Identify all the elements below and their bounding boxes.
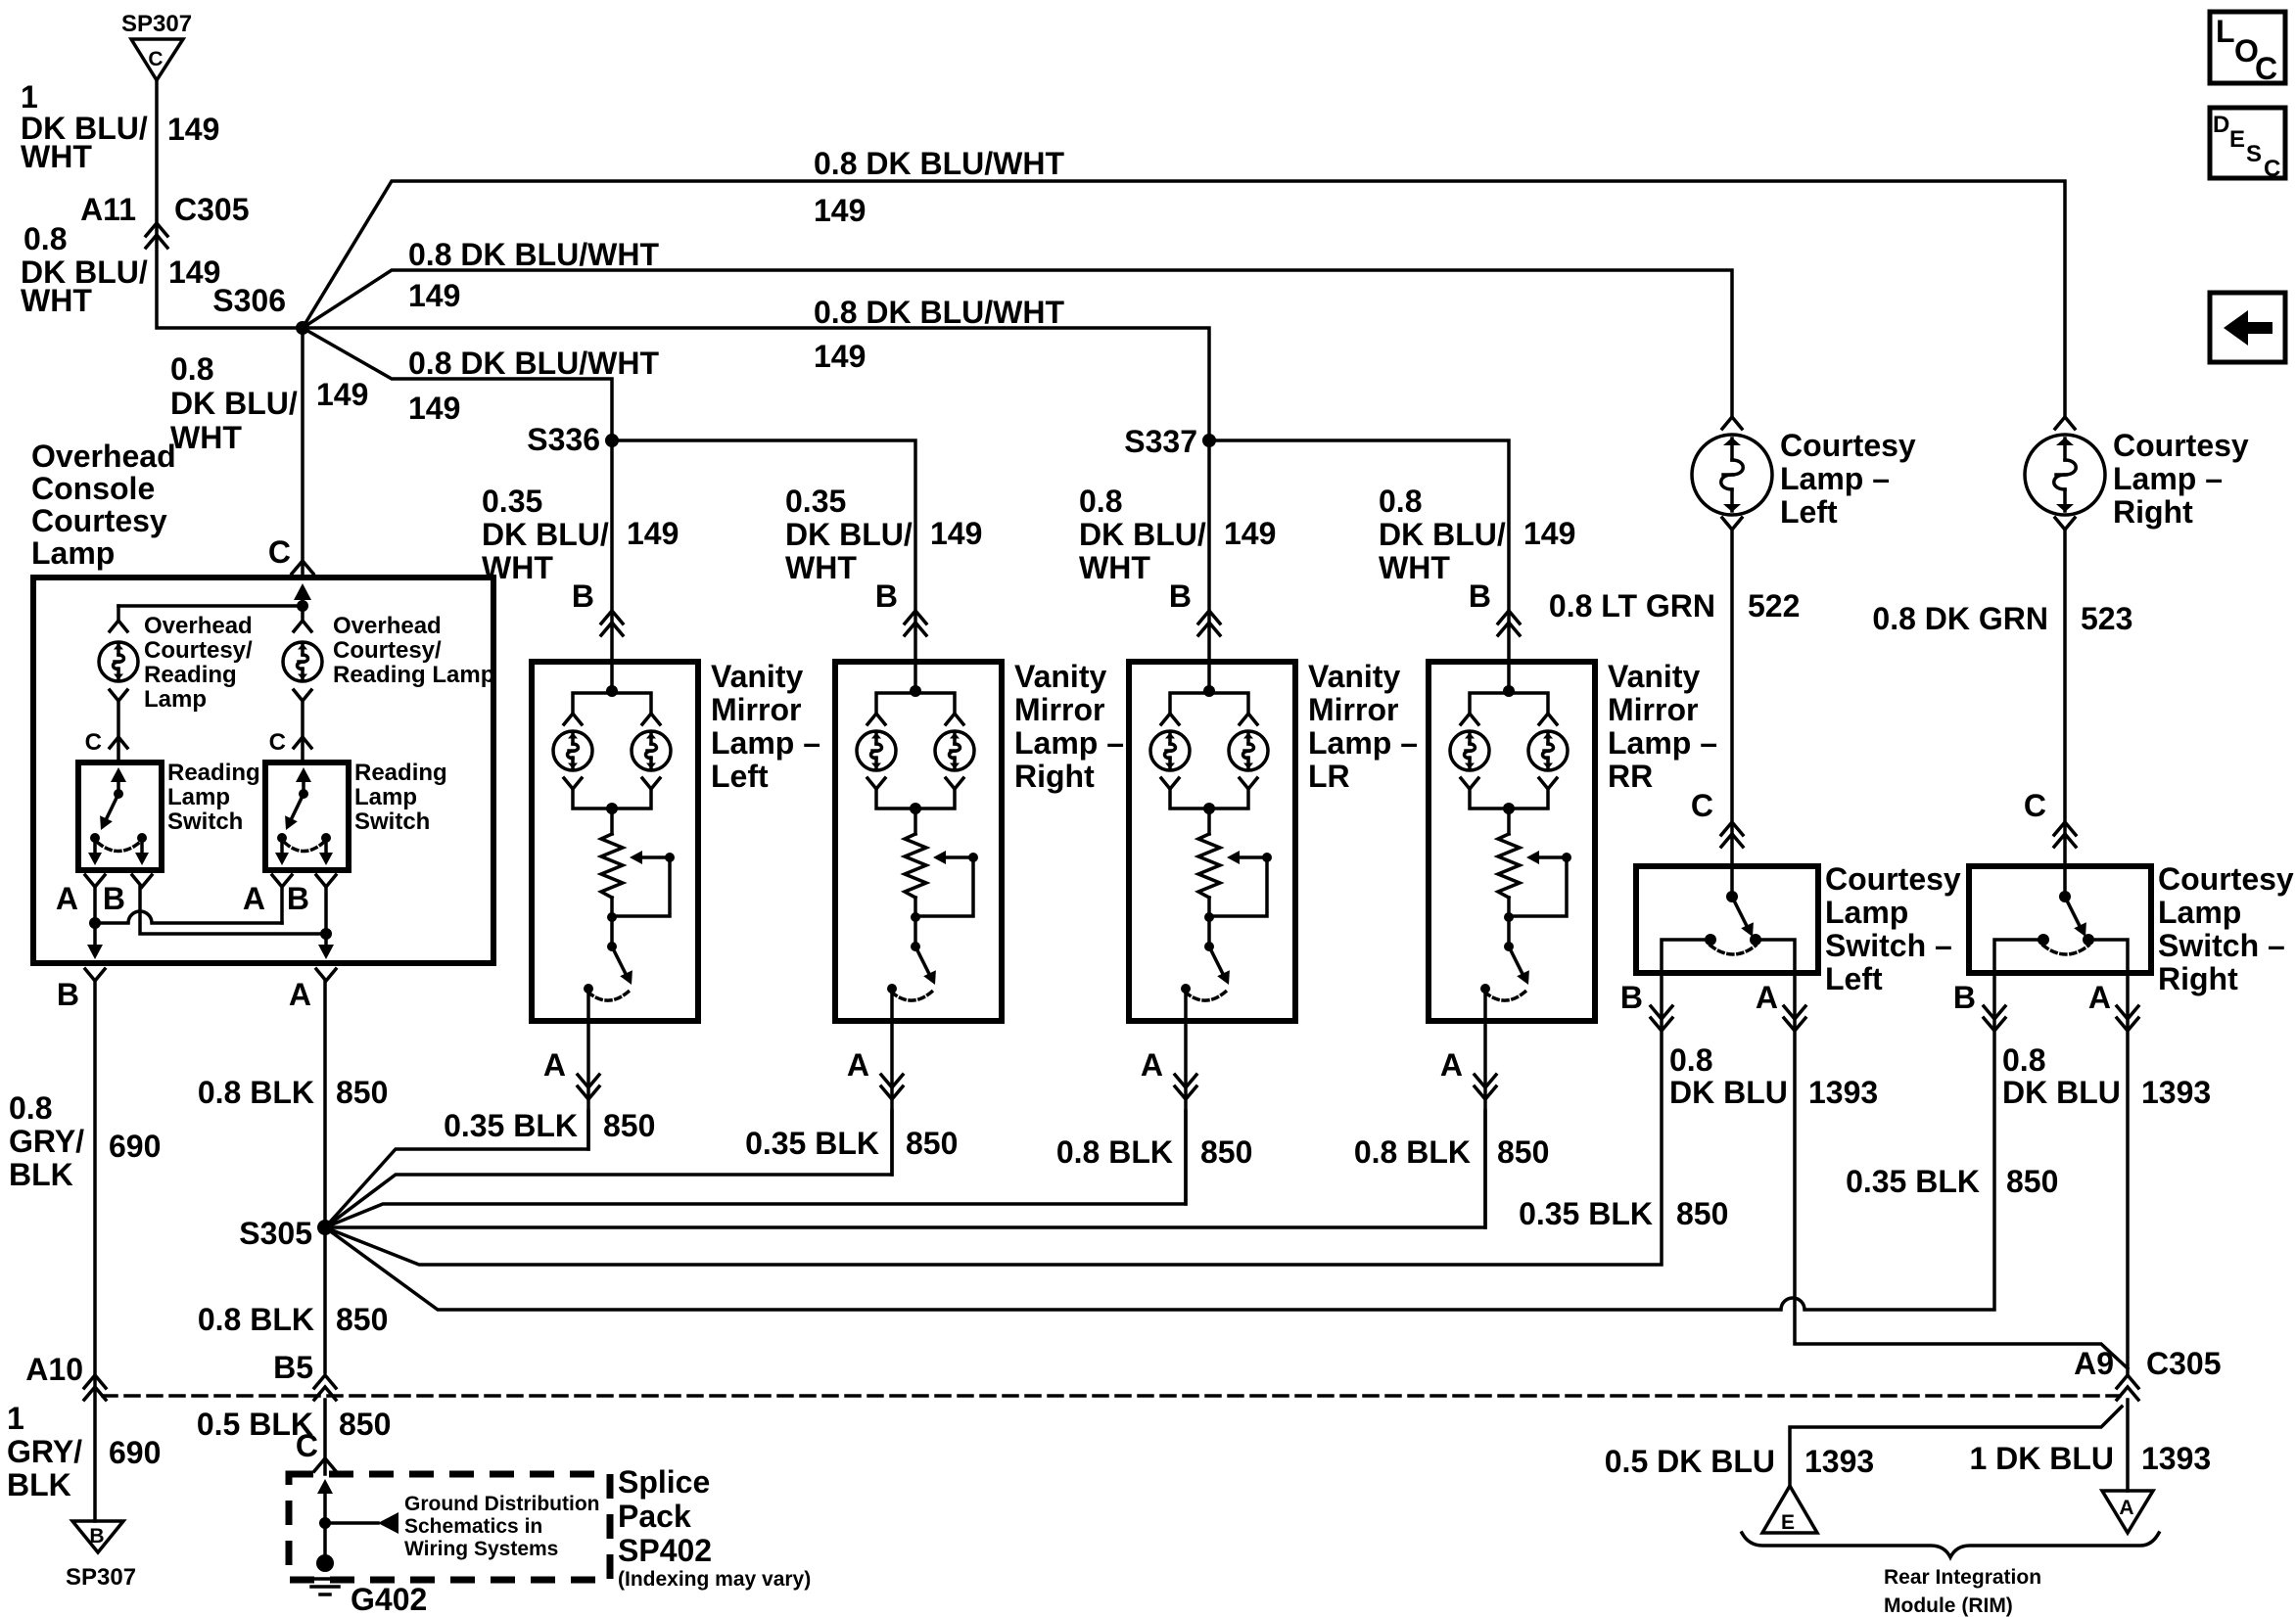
- wire S305 to vanity RR pin A (0.8 BLK 850): [325, 1111, 1485, 1227]
- label 0.8 DK BLU/WHT 149 (vanity RR): [1379, 484, 1575, 585]
- label ground distribution note: [404, 1493, 599, 1560]
- svg-text:A: A: [1756, 980, 1778, 1015]
- label 0.8 GRY/BLK 690: [9, 1090, 161, 1192]
- wire courtesy switch left A to C305 A9: [1795, 973, 2128, 1368]
- courtesy lamp left: [1692, 417, 1772, 530]
- svg-text:A9: A9: [2074, 1346, 2114, 1381]
- svg-text:A11: A11: [80, 192, 136, 227]
- label vanity mirror lamp LR: [1308, 659, 1418, 794]
- wire S305 down to splice pack (0.8 BLK 850): [323, 1227, 327, 1372]
- wire console A to S305 (0.8 BLK 850): [323, 981, 327, 1227]
- svg-text:Overhead: Overhead: [144, 613, 253, 639]
- svg-text:Right: Right: [2158, 961, 2238, 996]
- dashed separator line: [103, 1394, 2120, 1398]
- svg-text:C: C: [268, 534, 291, 570]
- svg-text:0.8 BLK: 0.8 BLK: [198, 1302, 314, 1337]
- label reading lamp switch left: [167, 760, 260, 835]
- wire vanity RR lamps join: [1461, 778, 1557, 834]
- vanity mirror lamp right box: [835, 662, 1002, 1021]
- svg-text:DK BLU/: DK BLU/: [1379, 517, 1506, 552]
- svg-text:Lamp: Lamp: [354, 784, 417, 810]
- label courtesy lamp switch right: [2158, 861, 2294, 996]
- svg-text:WHT: WHT: [21, 283, 92, 318]
- svg-text:0.8 DK BLU/WHT: 0.8 DK BLU/WHT: [408, 237, 659, 272]
- svg-text:Reading: Reading: [167, 760, 260, 786]
- label courtesy lamp switch left: [1825, 861, 1961, 996]
- svg-text:Wiring Systems: Wiring Systems: [404, 1538, 558, 1560]
- label overhead lamp left: [144, 613, 253, 713]
- svg-text:A10: A10: [25, 1352, 83, 1387]
- svg-text:Reading Lamp: Reading Lamp: [333, 662, 494, 688]
- wire S305 to courtesy switch left pin B (0.35 BLK 850): [325, 973, 1662, 1265]
- svg-text:850: 850: [1676, 1196, 1728, 1231]
- pin B courtesy switch right: [1953, 980, 2005, 1031]
- svg-text:S306: S306: [212, 283, 286, 318]
- svg-text:0.35 BLK: 0.35 BLK: [444, 1108, 578, 1143]
- svg-text:E: E: [2229, 126, 2245, 153]
- svg-text:1: 1: [21, 79, 38, 115]
- DESC legend box: [2210, 108, 2285, 182]
- label 0.8 BLK 850 (vanity RR): [1354, 1134, 1550, 1170]
- vanity LR bulb 2: [1229, 731, 1268, 770]
- vanity mirror lamp left box: [532, 662, 698, 1021]
- svg-text:B: B: [1953, 980, 1976, 1015]
- svg-text:A: A: [289, 977, 311, 1012]
- wire console B to SP307 (0.8/1 GRY/BLK 690): [93, 981, 97, 1521]
- label vanity mirror lamp RR: [1608, 659, 1717, 794]
- wire vanity left lamps join: [564, 778, 660, 834]
- svg-text:Lamp: Lamp: [31, 535, 115, 571]
- svg-text:SP307: SP307: [66, 1564, 136, 1591]
- pin A courtesy switch right: [2088, 980, 2138, 1031]
- svg-text:Switch: Switch: [167, 808, 243, 835]
- svg-text:SP307: SP307: [121, 11, 192, 37]
- label 0.8 DK BLU 1393 (switch left): [1669, 1042, 1878, 1110]
- svg-text:0.8 BLK: 0.8 BLK: [198, 1075, 314, 1110]
- svg-text:B: B: [89, 1525, 104, 1548]
- svg-text:Console: Console: [31, 471, 155, 506]
- svg-text:Ground Distribution: Ground Distribution: [404, 1493, 599, 1515]
- svg-text:Mirror: Mirror: [1308, 692, 1398, 727]
- svg-text:C305: C305: [174, 192, 250, 227]
- wire vanity LR lamps join: [1161, 778, 1257, 834]
- wire courtesy switch right A to C305 A9: [2126, 973, 2130, 1373]
- svg-text:149: 149: [627, 516, 679, 551]
- resistor vanity right (rheostat): [905, 834, 926, 898]
- svg-text:522: 522: [1748, 588, 1800, 624]
- label reading lamp switch right: [354, 760, 447, 835]
- svg-text:Reading: Reading: [144, 662, 237, 688]
- pin A courtesy switch left: [1756, 980, 1805, 1031]
- node C (console connector): [268, 534, 313, 574]
- svg-text:LR: LR: [1308, 759, 1350, 794]
- label 0.8 LT GRN 522: [1549, 588, 1800, 624]
- svg-text:Mirror: Mirror: [711, 692, 801, 727]
- label 0.8 DK BLU/WHT 149 (console feed): [170, 351, 368, 455]
- svg-text:C: C: [148, 48, 163, 70]
- pin A console: [289, 969, 336, 1012]
- wiper vanity RR: [1504, 851, 1571, 922]
- svg-text:149: 149: [408, 391, 460, 426]
- connector SP307 bottom (triangle B): [66, 1521, 136, 1591]
- wire S306 down to overhead console (0.8 DK BLU/WHT 149): [301, 328, 305, 577]
- svg-text:Lamp –: Lamp –: [1014, 725, 1124, 761]
- label courtesy lamp left: [1780, 428, 1916, 530]
- wire console internal B-B link: [140, 887, 332, 940]
- vanity right bulb 2: [935, 731, 974, 770]
- svg-text:850: 850: [2006, 1164, 2058, 1199]
- vanity RR bulb 2: [1528, 731, 1568, 770]
- svg-text:Schematics in: Schematics in: [404, 1515, 542, 1538]
- svg-text:G402: G402: [351, 1582, 427, 1617]
- connector C305 pin A11: [80, 192, 249, 248]
- wire console internal A-A link: [89, 887, 282, 929]
- svg-text:D: D: [2213, 112, 2229, 138]
- svg-text:S337: S337: [1124, 424, 1197, 459]
- svg-text:Vanity: Vanity: [1308, 659, 1400, 694]
- wire courtesy lamp left to switch (0.8 LT GRN 522): [1730, 530, 1734, 866]
- reading lamp switch left internals: [88, 767, 149, 865]
- svg-text:Courtesy/: Courtesy/: [333, 637, 442, 664]
- svg-text:DK BLU/: DK BLU/: [170, 386, 298, 421]
- svg-text:0.8 LT GRN: 0.8 LT GRN: [1549, 588, 1715, 624]
- vanity left bulb 2: [632, 731, 671, 770]
- svg-text:C: C: [2264, 156, 2280, 182]
- wire S306 to courtesy lamp right (0.8 DK BLU/WHT 149): [303, 181, 2065, 417]
- LOC legend box: [2210, 12, 2285, 86]
- svg-text:149: 149: [1224, 516, 1276, 551]
- svg-text:(Indexing may vary): (Indexing may vary): [618, 1568, 811, 1591]
- label 0.35 DK BLU/WHT 149 (vanity right): [785, 484, 982, 585]
- svg-text:850: 850: [603, 1108, 655, 1143]
- svg-text:Lamp –: Lamp –: [1780, 461, 1890, 496]
- wire console exit B: [87, 923, 103, 959]
- connector SP307 top (triangle C): [121, 11, 192, 80]
- label vanity mirror lamp left: [711, 659, 820, 794]
- svg-text:BLK: BLK: [9, 1157, 73, 1192]
- svg-text:1393: 1393: [2141, 1441, 2211, 1476]
- wire overhead lamp left to switch pin C: [85, 690, 127, 762]
- back arrow box: [2210, 293, 2285, 362]
- label 0.35 BLK 850 (vanity left): [444, 1108, 655, 1143]
- svg-text:0.8: 0.8: [1669, 1042, 1712, 1078]
- svg-text:Lamp: Lamp: [1825, 895, 1908, 930]
- wire inside splice pack: [317, 1479, 333, 1563]
- svg-text:WHT: WHT: [170, 420, 242, 455]
- wire S336 to vanity mirror lamp right: [612, 440, 915, 662]
- svg-text:DK BLU/: DK BLU/: [482, 517, 609, 552]
- svg-text:1393: 1393: [1808, 1075, 1878, 1110]
- svg-text:0.8 DK BLU/WHT: 0.8 DK BLU/WHT: [814, 146, 1064, 181]
- svg-text:B5: B5: [273, 1350, 313, 1385]
- svg-text:Left: Left: [711, 759, 769, 794]
- svg-text:Left: Left: [1825, 961, 1883, 996]
- svg-text:WHT: WHT: [1379, 550, 1450, 585]
- svg-text:WHT: WHT: [785, 550, 857, 585]
- svg-text:Courtesy: Courtesy: [31, 503, 167, 538]
- vanity mirror lamp LR box: [1129, 662, 1295, 1021]
- wire vanity right pin A to S305: [847, 989, 903, 1175]
- label overhead lamp right: [333, 613, 494, 688]
- wire vanity RR internal top: [1461, 662, 1557, 724]
- svg-text:149: 149: [167, 112, 219, 147]
- svg-text:0.8 DK GRN: 0.8 DK GRN: [1872, 601, 2048, 636]
- svg-text:C: C: [2024, 788, 2046, 823]
- svg-text:A: A: [243, 881, 265, 916]
- label 0.35 BLK 850 (vanity right): [745, 1126, 958, 1161]
- wiper vanity left: [607, 851, 675, 922]
- label 0.8 DK BLU/WHT 149 (top branch): [814, 146, 1064, 228]
- pin B courtesy switch left: [1620, 980, 1672, 1031]
- svg-text:DK BLU/: DK BLU/: [785, 517, 913, 552]
- label splice pack SP402: [618, 1464, 811, 1591]
- label 1 DK BLU/WHT 149: [21, 79, 219, 174]
- label 1 GRY/BLK 690: [7, 1401, 161, 1502]
- svg-text:SP402: SP402: [618, 1533, 712, 1568]
- svg-text:0.35 BLK: 0.35 BLK: [1519, 1196, 1653, 1231]
- svg-text:0.8 DK BLU/WHT: 0.8 DK BLU/WHT: [408, 346, 659, 381]
- svg-text:Right: Right: [1014, 759, 1095, 794]
- resistor vanity left (rheostat): [601, 834, 623, 898]
- svg-text:Pack: Pack: [618, 1499, 691, 1534]
- overhead courtesy/reading lamp left: [99, 642, 138, 681]
- svg-text:GRY/: GRY/: [7, 1434, 82, 1469]
- label 0.8 BLK 850 (below S305): [198, 1302, 389, 1337]
- svg-text:WHT: WHT: [1079, 550, 1150, 585]
- label 0.8 DK GRN 523: [1872, 601, 2132, 636]
- svg-text:523: 523: [2081, 601, 2132, 636]
- node console splice: [118, 600, 308, 612]
- svg-text:Courtesy: Courtesy: [2113, 428, 2249, 463]
- wire vanity LR pin A to S305: [1141, 989, 1196, 1204]
- svg-text:690: 690: [109, 1435, 161, 1470]
- reading lamp switch left box: [78, 762, 162, 870]
- label 0.8 DK BLU/WHT 149 (vanity LR): [1079, 484, 1276, 585]
- svg-text:B: B: [1169, 578, 1192, 614]
- switch vanity LR: [1181, 898, 1230, 1000]
- svg-text:850: 850: [336, 1302, 388, 1337]
- label Rear Integration Module (RIM): [1884, 1566, 2041, 1617]
- splice S337: [1124, 424, 1216, 459]
- courtesy lamp switch right internals: [1994, 866, 2128, 973]
- svg-text:149: 149: [930, 516, 982, 551]
- pins A B of reading lamp switch left: [56, 875, 152, 916]
- svg-text:Rear Integration: Rear Integration: [1884, 1566, 2041, 1589]
- svg-text:Module (RIM): Module (RIM): [1884, 1594, 2013, 1617]
- svg-text:0.35 BLK: 0.35 BLK: [1846, 1164, 1980, 1199]
- wire B5 to splice pack (0.5 BLK 850): [323, 1400, 327, 1474]
- label 0.8 DK BLU/WHT 149 (third branch): [814, 295, 1064, 374]
- label 0.8 DK BLU/WHT 149 (A11 to S306): [21, 221, 220, 318]
- svg-text:0.5 DK BLU: 0.5 DK BLU: [1605, 1444, 1775, 1479]
- label vanity mirror lamp right: [1014, 659, 1124, 794]
- svg-text:C: C: [296, 1428, 318, 1463]
- svg-text:Vanity: Vanity: [711, 659, 803, 694]
- label Overhead Console Courtesy Lamp: [31, 439, 176, 571]
- wire S337 to vanity mirror lamp RR: [1209, 440, 1509, 662]
- wire S306 to courtesy lamp left (0.8 DK BLU/WHT 149): [303, 270, 1732, 417]
- courtesy lamp switch left internals: [1662, 866, 1795, 973]
- svg-text:Mirror: Mirror: [1014, 692, 1104, 727]
- wire vanity RR pin A to S305: [1440, 989, 1496, 1227]
- wire S305 to vanity left pin A (0.35 BLK 850): [325, 1111, 588, 1227]
- svg-text:0.8 DK BLU/WHT: 0.8 DK BLU/WHT: [814, 295, 1064, 330]
- label courtesy lamp right: [2113, 428, 2249, 530]
- svg-text:Lamp –: Lamp –: [1608, 725, 1717, 761]
- overhead console courtesy lamp box: [33, 577, 493, 963]
- wire S306 to splice S336 (0.8 DK BLU/WHT 149): [303, 328, 612, 440]
- courtesy lamp right: [2025, 417, 2105, 530]
- wire overhead lamp right to switch pin C: [269, 690, 311, 762]
- svg-text:Switch: Switch: [354, 808, 430, 835]
- vanity RR bulb 1: [1450, 731, 1489, 770]
- wiper vanity right: [911, 851, 978, 922]
- svg-text:1393: 1393: [2141, 1075, 2211, 1110]
- wire S306 to splice S337 (0.8 DK BLU/WHT 149): [303, 328, 1209, 440]
- svg-text:A: A: [847, 1047, 869, 1083]
- svg-text:L: L: [2216, 14, 2235, 49]
- svg-text:Switch –: Switch –: [2158, 928, 2285, 963]
- svg-text:A: A: [56, 881, 78, 916]
- label 0.8 DK BLU 1393 (switch right): [2002, 1042, 2211, 1110]
- svg-text:E: E: [1781, 1511, 1795, 1534]
- svg-text:B: B: [1469, 578, 1491, 614]
- svg-text:Lamp –: Lamp –: [1308, 725, 1418, 761]
- wire C305 A9 branch to RIM pin E (0.5 DK BLU 1393): [1790, 1407, 2122, 1486]
- label 0.35 BLK 850 (courtesy switch left B): [1519, 1196, 1728, 1231]
- svg-text:DK BLU: DK BLU: [1669, 1075, 1788, 1110]
- wire courtesy lamp right to switch (0.8 DK GRN 523): [2063, 530, 2067, 866]
- svg-text:B: B: [287, 881, 309, 916]
- svg-text:Courtesy: Courtesy: [1780, 428, 1916, 463]
- vanity left bulb 1: [553, 731, 592, 770]
- svg-text:149: 149: [316, 377, 368, 412]
- connector C305 pin B5: [273, 1350, 336, 1400]
- label 1 DK BLU 1393: [1969, 1441, 2211, 1476]
- pins A B of reading lamp switch right: [243, 875, 336, 916]
- overhead courtesy/reading lamp right: [283, 642, 322, 681]
- svg-text:0.35: 0.35: [785, 484, 846, 519]
- vanity LR bulb 1: [1150, 731, 1190, 770]
- RIM pin A triangle: [2102, 1491, 2153, 1533]
- wire vanity right internal top: [867, 662, 963, 724]
- RIM brace: [1742, 1533, 2159, 1557]
- svg-text:C: C: [2255, 51, 2277, 86]
- svg-text:0.8: 0.8: [1379, 484, 1422, 519]
- svg-text:0.8 BLK: 0.8 BLK: [1056, 1134, 1173, 1170]
- svg-text:Vanity: Vanity: [1608, 659, 1700, 694]
- svg-text:B: B: [103, 881, 125, 916]
- courtesy lamp switch right box: [1969, 866, 2151, 973]
- svg-text:C: C: [85, 729, 102, 756]
- resistor vanity LR (rheostat): [1198, 834, 1220, 898]
- pin C courtesy lamp switch left: [1691, 788, 1743, 847]
- svg-text:0.8: 0.8: [1079, 484, 1122, 519]
- svg-text:Overhead: Overhead: [31, 439, 176, 474]
- svg-text:B: B: [57, 977, 79, 1012]
- pin C courtesy lamp switch right: [2024, 788, 2076, 847]
- wire SP307 down to S306: [157, 80, 303, 328]
- svg-text:1393: 1393: [1804, 1444, 1874, 1479]
- pin B vanity mirror lamp right: [875, 578, 926, 635]
- label 0.35 BLK 850 (courtesy switch right B): [1846, 1164, 2058, 1199]
- svg-text:0.8: 0.8: [9, 1090, 52, 1126]
- svg-text:Courtesy/: Courtesy/: [144, 637, 253, 664]
- wire S305 to vanity LR pin A (0.8 BLK 850): [325, 1111, 1186, 1227]
- svg-text:850: 850: [336, 1075, 388, 1110]
- svg-text:S336: S336: [527, 422, 600, 457]
- svg-text:Left: Left: [1780, 494, 1838, 530]
- svg-text:Right: Right: [2113, 494, 2193, 530]
- svg-text:B: B: [875, 578, 898, 614]
- svg-text:Courtesy: Courtesy: [2158, 861, 2294, 897]
- wire vanity left pin A to S305: [543, 989, 599, 1149]
- wire S305 to vanity right pin A (0.35 BLK 850): [325, 1111, 892, 1227]
- svg-text:Splice: Splice: [618, 1464, 710, 1500]
- svg-text:Lamp –: Lamp –: [711, 725, 820, 761]
- svg-text:Lamp –: Lamp –: [2113, 461, 2223, 496]
- pin B vanity mirror lamp left: [572, 578, 623, 635]
- ground G402: [304, 1554, 427, 1617]
- svg-text:Vanity: Vanity: [1014, 659, 1106, 694]
- switch vanity right: [887, 898, 936, 1000]
- reading lamp switch right box: [265, 762, 349, 870]
- pin B vanity mirror lamp LR: [1169, 578, 1220, 635]
- label 0.5 DK BLU 1393: [1605, 1444, 1874, 1479]
- wire C305 A9 to RIM pin A (1 DK BLU 1393): [2126, 1400, 2130, 1491]
- pin B vanity mirror lamp RR: [1469, 578, 1520, 635]
- wire S337 to vanity mirror lamp LR: [1207, 440, 1211, 662]
- svg-text:0.8: 0.8: [23, 221, 67, 256]
- svg-text:850: 850: [1497, 1134, 1549, 1170]
- vanity mirror lamp RR box: [1429, 662, 1595, 1021]
- svg-text:Lamp: Lamp: [2158, 895, 2241, 930]
- svg-text:A: A: [1440, 1047, 1463, 1083]
- svg-text:0.8: 0.8: [2002, 1042, 2045, 1078]
- svg-text:0.35: 0.35: [482, 484, 542, 519]
- splice S306: [212, 283, 309, 335]
- wire vanity right lamps join: [867, 778, 963, 834]
- svg-text:0.8: 0.8: [170, 351, 213, 387]
- svg-text:S305: S305: [239, 1216, 312, 1251]
- svg-text:A: A: [1141, 1047, 1163, 1083]
- svg-text:A: A: [2088, 980, 2111, 1015]
- svg-text:690: 690: [109, 1129, 161, 1164]
- wire vanity LR internal top: [1161, 662, 1257, 724]
- wire to left overhead lamp: [110, 606, 127, 631]
- wire S336 to vanity mirror lamp left: [610, 440, 614, 662]
- reading lamp switch right internals: [275, 767, 333, 865]
- splice S336: [527, 422, 619, 457]
- vanity right bulb 1: [857, 731, 896, 770]
- svg-text:0.8 BLK: 0.8 BLK: [1354, 1134, 1471, 1170]
- svg-text:1 DK BLU: 1 DK BLU: [1969, 1441, 2114, 1476]
- label 0.8 BLK 850 (above S305): [198, 1075, 389, 1110]
- wire S305 to courtesy switch right pin B (0.35 BLK 850): [325, 973, 1994, 1310]
- wire console entry: [294, 583, 311, 606]
- resistor vanity RR (rheostat): [1498, 834, 1520, 898]
- connector C305 pin A9: [2074, 1346, 2221, 1400]
- pin C splice pack: [296, 1428, 336, 1471]
- svg-text:DK BLU: DK BLU: [2002, 1075, 2121, 1110]
- svg-text:Overhead: Overhead: [333, 613, 442, 639]
- svg-text:GRY/: GRY/: [9, 1124, 84, 1159]
- svg-text:BLK: BLK: [7, 1467, 71, 1502]
- svg-text:Mirror: Mirror: [1608, 692, 1698, 727]
- svg-text:A: A: [2119, 1497, 2133, 1519]
- RIM pin E triangle: [1762, 1486, 1817, 1534]
- splice pack SP402 dashed box: [289, 1474, 610, 1580]
